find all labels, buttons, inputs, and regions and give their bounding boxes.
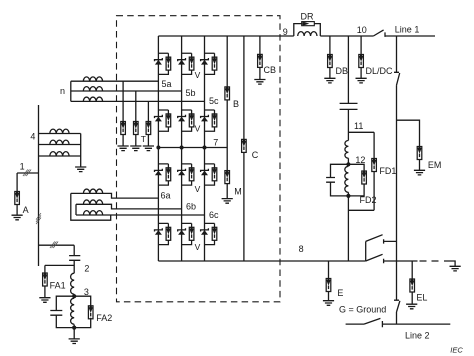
svg-text:FA2: FA2 bbox=[96, 313, 112, 323]
svg-text:EM: EM bbox=[428, 160, 442, 170]
svg-text:12: 12 bbox=[355, 155, 365, 165]
svg-text:V: V bbox=[195, 242, 201, 252]
svg-text:V: V bbox=[195, 70, 201, 80]
svg-text:DB: DB bbox=[336, 66, 349, 76]
svg-text:5b: 5b bbox=[186, 88, 196, 98]
svg-text:10: 10 bbox=[357, 25, 367, 35]
svg-text:C: C bbox=[252, 150, 259, 160]
svg-text:1: 1 bbox=[20, 162, 25, 172]
svg-text:A: A bbox=[23, 205, 29, 215]
svg-text:M: M bbox=[234, 187, 242, 197]
svg-text:4: 4 bbox=[30, 132, 35, 142]
svg-text:IEC: IEC bbox=[450, 346, 463, 355]
svg-text:DR: DR bbox=[301, 12, 314, 22]
svg-text:6c: 6c bbox=[209, 210, 219, 220]
svg-text:DL/DC: DL/DC bbox=[366, 66, 394, 76]
svg-text:E: E bbox=[337, 288, 343, 298]
svg-text:Line 2: Line 2 bbox=[405, 331, 430, 341]
svg-text:V: V bbox=[195, 184, 201, 194]
svg-text:11: 11 bbox=[354, 121, 363, 131]
svg-text:9: 9 bbox=[283, 27, 288, 37]
svg-text:2: 2 bbox=[84, 264, 89, 274]
svg-text:Line 1: Line 1 bbox=[395, 24, 420, 34]
svg-text:T: T bbox=[141, 134, 146, 144]
svg-text:3: 3 bbox=[84, 287, 89, 297]
svg-text:FD1: FD1 bbox=[379, 166, 396, 176]
svg-text:G = Ground: G = Ground bbox=[339, 304, 386, 314]
svg-text:5c: 5c bbox=[209, 96, 219, 106]
svg-text:n: n bbox=[60, 86, 65, 96]
svg-text:6a: 6a bbox=[161, 190, 171, 200]
svg-text:5a: 5a bbox=[162, 79, 172, 89]
svg-text:7: 7 bbox=[213, 138, 218, 148]
svg-text:V: V bbox=[195, 124, 201, 134]
svg-text:EL: EL bbox=[416, 292, 427, 302]
svg-text:FA1: FA1 bbox=[50, 281, 66, 291]
svg-text:8: 8 bbox=[299, 244, 304, 254]
svg-text:CB: CB bbox=[264, 65, 277, 75]
svg-text:FD2: FD2 bbox=[360, 195, 377, 205]
svg-text:6b: 6b bbox=[186, 201, 196, 211]
svg-text:B: B bbox=[233, 99, 239, 109]
